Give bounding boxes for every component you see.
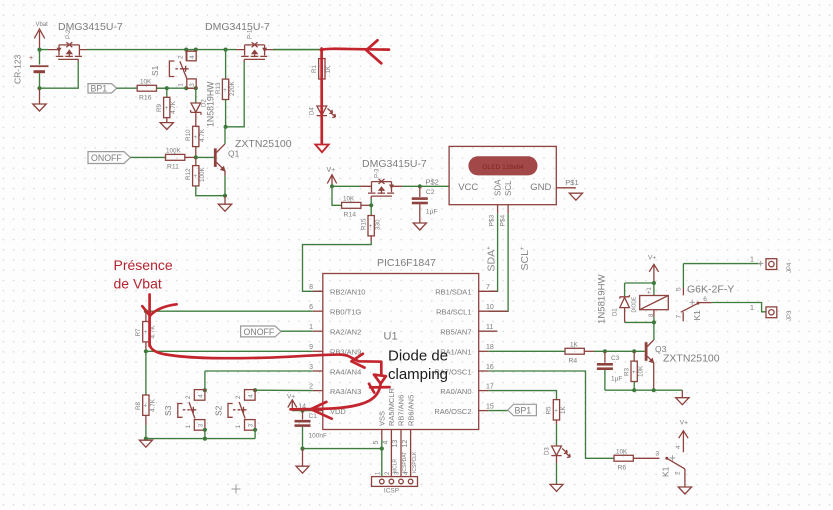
wire — [157, 87, 197, 89]
svg-text:17: 17 — [486, 383, 494, 390]
wire — [130, 156, 165, 158]
svg-text:ONOFF: ONOFF — [244, 327, 275, 337]
svg-text:K1: K1 — [661, 466, 671, 477]
svg-text:3: 3 — [248, 423, 255, 427]
svg-text:1K: 1K — [560, 405, 567, 414]
wire main rail — [40, 49, 321, 51]
switch S1 — [150, 50, 196, 89]
resistor R6 10K — [614, 449, 659, 472]
resistor R11 100K — [166, 148, 196, 171]
node junction R14/R15/gate — [369, 203, 373, 207]
wire — [226, 62, 245, 127]
svg-text:100K: 100K — [199, 166, 206, 182]
node rail junction — [144, 437, 148, 441]
svg-text:3: 3 — [309, 364, 313, 371]
svg-text:1N5819HW: 1N5819HW — [597, 273, 608, 324]
node V+ junction — [330, 184, 334, 188]
svg-text:MCLR: MCLR — [393, 458, 399, 473]
svg-text:D1: D1 — [613, 308, 619, 316]
svg-text:S1: S1 — [150, 65, 160, 76]
resistor R9 4.7K — [156, 88, 177, 122]
svg-text:1N5819HW: 1N5819HW — [206, 81, 216, 127]
pin 11 RB5/AN7 — [440, 324, 497, 337]
wire pin9 — [146, 350, 313, 352]
supply Vbat — [34, 22, 48, 50]
svg-text:RA0/AN0: RA0/AN0 — [440, 387, 471, 396]
svg-text:R3: R3 — [623, 367, 630, 376]
svg-text:+: + — [194, 135, 198, 141]
svg-text:P-1: P-1 — [248, 29, 254, 39]
svg-text:4.7K: 4.7K — [170, 100, 177, 114]
pin 14 VDD — [298, 403, 346, 416]
flag ONOFF — [88, 152, 130, 164]
transistor DMG3415U-7 (P-1) — [205, 21, 273, 62]
svg-text:C3: C3 — [611, 355, 620, 362]
resistor R1 1K — [311, 50, 332, 106]
wire base Q3 — [594, 350, 645, 352]
svg-text:1K: 1K — [325, 65, 332, 74]
node R3 junction — [632, 349, 636, 353]
wire pin3 — [205, 371, 313, 390]
wire to pin8 — [303, 241, 372, 291]
svg-text:10: 10 — [486, 304, 494, 311]
svg-text:5: 5 — [373, 441, 380, 445]
svg-text:1µF: 1µF — [426, 209, 438, 216]
svg-text:220K: 220K — [229, 80, 236, 96]
svg-text:Vbat: Vbat — [36, 22, 49, 28]
relay K1 coil G6K-2F-Y — [632, 284, 735, 318]
ground — [218, 196, 231, 212]
flag ONOFF — [241, 326, 281, 337]
flag BP1 — [88, 83, 117, 93]
svg-text:R13: R13 — [215, 82, 222, 94]
pin 9 RB3/AN9 — [309, 344, 361, 357]
wire SDA — [489, 214, 498, 291]
svg-text:13: 13 — [392, 440, 399, 448]
svg-text:1: 1 — [185, 425, 192, 429]
svg-text:RB6/AN5: RB6/AN5 — [406, 395, 415, 426]
svg-text:4.7K: 4.7K — [149, 398, 156, 412]
svg-text:clamping: clamping — [388, 366, 448, 383]
svg-text:RB4/SCL1: RB4/SCL1 — [436, 308, 471, 317]
annotation red arrow Presence — [148, 295, 151, 347]
wire — [40, 62, 79, 88]
node R7 tee — [144, 309, 148, 313]
node base junction — [194, 155, 198, 159]
svg-text:3: 3 — [197, 423, 204, 427]
svg-text:R11: R11 — [167, 164, 179, 171]
svg-text:BP1: BP1 — [91, 83, 108, 93]
svg-text:1: 1 — [178, 83, 185, 87]
svg-text:SDA: SDA — [493, 179, 502, 196]
svg-text:3: 3 — [656, 451, 660, 458]
wire bottom rail — [605, 389, 682, 391]
svg-text:V+: V+ — [287, 394, 295, 401]
svg-text:Diode de: Diode de — [388, 347, 448, 364]
svg-text:4.7K: 4.7K — [199, 128, 206, 142]
supply V+ at VDD — [287, 394, 297, 412]
svg-text:R8: R8 — [135, 401, 142, 410]
svg-text:BP1: BP1 — [515, 405, 532, 415]
svg-text:7: 7 — [486, 284, 490, 291]
grid cursor cross — [232, 485, 241, 494]
switch contact K1 (pins 3/4/2) — [656, 420, 692, 495]
pin 17 RA0/AN0 — [440, 383, 494, 396]
wire to ground rail — [145, 425, 147, 439]
op-amp U1 PIC16F1847 — [323, 257, 479, 430]
svg-text:4: 4 — [248, 394, 255, 398]
pin 12 RB6/AN5 — [402, 395, 418, 477]
transistor DMG3415U-7 (P-2) — [48, 21, 123, 62]
pin 1 RA2/AN2 — [309, 324, 361, 337]
annotation red current path top — [321, 49, 389, 50]
svg-text:PIC16F1847: PIC16F1847 — [377, 257, 436, 269]
pin 15 RA6/OSC2 — [434, 403, 494, 416]
svg-text:11: 11 — [486, 324, 493, 331]
resistor R15 330 — [360, 216, 381, 242]
node relay bottom junction — [652, 320, 656, 324]
pin 3 RA4/AN4 — [309, 364, 361, 377]
ground — [676, 390, 689, 405]
resistor R3 10K — [623, 351, 644, 390]
resistor R10 4.7K — [185, 126, 206, 157]
resistor R12 100K — [185, 157, 225, 195]
svg-text:ONOFF: ONOFF — [91, 153, 122, 163]
svg-text:P$1: P$1 — [565, 178, 578, 187]
wire rail to R1 — [273, 49, 321, 51]
svg-text:1: 1 — [750, 303, 754, 312]
svg-text:VSS: VSS — [378, 411, 387, 426]
svg-text:C2: C2 — [426, 189, 435, 196]
wire pin17 — [489, 391, 557, 400]
svg-text:1: 1 — [235, 425, 242, 429]
svg-text:+: + — [573, 346, 577, 352]
svg-text:+: + — [29, 55, 33, 62]
svg-text:ZXTN25100: ZXTN25100 — [235, 138, 292, 150]
ground — [139, 440, 152, 447]
switch S3 — [163, 388, 207, 441]
svg-text:2: 2 — [675, 471, 682, 475]
svg-text:15: 15 — [486, 403, 494, 410]
node VSS junction — [300, 447, 304, 451]
resistor R5 1K — [546, 400, 567, 424]
pad JP4 — [750, 255, 793, 274]
node rail junctions — [632, 388, 636, 392]
svg-text:R1: R1 — [311, 64, 318, 73]
svg-text:+: + — [369, 224, 373, 230]
diode D1 1N5819HW — [597, 273, 630, 324]
svg-text:U1: U1 — [384, 331, 398, 343]
svg-text:RA6/OSC2: RA6/OSC2 — [434, 407, 471, 416]
wire VDD — [292, 410, 313, 412]
node C2 junction — [418, 184, 422, 188]
wire gate — [370, 199, 372, 216]
svg-text:GND: GND — [530, 182, 551, 193]
svg-text:4: 4 — [383, 441, 390, 445]
svg-text:+: + — [622, 453, 626, 459]
node junctions y88 — [165, 86, 169, 90]
svg-text:4: 4 — [189, 55, 196, 59]
svg-text:JP3: JP3 — [787, 310, 793, 321]
wire pin2 — [255, 389, 313, 391]
svg-text:C1: C1 — [309, 413, 318, 420]
pin 6 RB0/T1G — [309, 304, 361, 317]
svg-text:D3: D3 — [545, 447, 551, 455]
svg-text:+1: +1 — [647, 286, 653, 294]
svg-text:RB5/AN7: RB5/AN7 — [440, 328, 471, 337]
svg-text:Q1: Q1 — [228, 149, 240, 159]
svg-text:DMG3415U-7: DMG3415U-7 — [362, 158, 427, 170]
ground — [160, 123, 173, 130]
switch S2 — [214, 388, 258, 439]
wire — [556, 424, 558, 446]
svg-text:12: 12 — [402, 440, 409, 448]
wire pin6 — [146, 310, 313, 312]
svg-text:RA2/AN2: RA2/AN2 — [330, 328, 361, 337]
pin 16 RA7/OSC1 — [434, 364, 494, 377]
pin 18 RA1/AN1 — [440, 344, 494, 357]
svg-text:R16: R16 — [139, 95, 152, 102]
battery CR-123 — [13, 54, 49, 84]
resistor R4 1K — [565, 342, 594, 365]
flag BP1 — [489, 404, 537, 415]
resistor R7 4.7K — [135, 311, 156, 351]
connector ICSP — [372, 471, 418, 495]
wire — [556, 463, 558, 484]
svg-text:DMG3415U-7: DMG3415U-7 — [205, 21, 270, 33]
pin 10 RB4/SCL1 — [436, 304, 508, 317]
svg-text:3: 3 — [189, 83, 196, 87]
resistor R14 10K — [342, 196, 372, 219]
annotation red diode sketch — [374, 375, 386, 384]
svg-text:+: + — [194, 174, 198, 180]
svg-text:R6: R6 — [618, 465, 627, 472]
wire pin5 to JP4 — [683, 264, 760, 288]
wire pin6 to JP3 — [712, 303, 766, 312]
svg-text:6: 6 — [309, 304, 313, 311]
svg-text:5: 5 — [676, 287, 683, 291]
svg-text:10K: 10K — [638, 365, 645, 377]
pin 7 RB1/SDA1 — [435, 284, 497, 297]
svg-text:4: 4 — [675, 445, 682, 449]
svg-text:R9: R9 — [156, 103, 163, 112]
svg-text:P-2: P-2 — [66, 29, 72, 39]
ground — [33, 88, 46, 111]
pin 8 RB2/AN10 — [309, 284, 365, 297]
svg-text:9: 9 — [309, 344, 313, 351]
ground (red annotated) — [315, 145, 328, 153]
svg-text:ICSP: ICSP — [384, 488, 399, 495]
module OLED 128x64 — [426, 146, 583, 226]
svg-text:ZXTN25100: ZXTN25100 — [663, 353, 720, 365]
svg-text:1: 1 — [750, 255, 754, 264]
pad JP3 — [750, 303, 793, 321]
ground — [296, 449, 309, 474]
svg-text:R7: R7 — [135, 328, 142, 337]
annotation red arrowhead left — [367, 40, 382, 63]
svg-text:R10: R10 — [185, 129, 192, 141]
wire — [117, 87, 137, 89]
svg-text:+: + — [223, 88, 227, 94]
diode D2 1N5819HW — [191, 81, 216, 127]
svg-text:JP4: JP4 — [787, 262, 793, 273]
svg-text:R14: R14 — [344, 212, 357, 219]
svg-text:OLED 128x64: OLED 128x64 — [482, 164, 524, 171]
annotation red VDD arrowhead — [311, 402, 332, 419]
svg-text:P$2: P$2 — [426, 178, 439, 187]
svg-text:RA3/AN3: RA3/AN3 — [330, 387, 361, 396]
svg-text:V+: V+ — [327, 167, 336, 174]
svg-text:+: + — [554, 409, 558, 415]
pin 5 VSS — [373, 411, 387, 445]
svg-text:+: + — [145, 83, 149, 89]
svg-text:2: 2 — [185, 395, 192, 399]
svg-text:330: 330 — [375, 219, 382, 230]
capacitor C2 1uF — [412, 186, 438, 223]
pin 2 RA3/AN3 — [309, 383, 361, 396]
svg-text:7: 7 — [675, 315, 682, 319]
node rail junctions — [184, 48, 188, 52]
svg-text:DIODE: DIODE — [632, 296, 638, 313]
wire pin18 — [489, 350, 565, 352]
svg-text:Présence: Présence — [114, 257, 173, 273]
capacitor C3 1uF — [597, 351, 622, 390]
svg-text:1µF: 1µF — [611, 376, 622, 383]
transistor DMG3415U-7 (P-3) — [360, 158, 427, 199]
supply V+ relay — [648, 255, 659, 284]
node relay top junction — [652, 281, 656, 285]
resistor R8 4.7K — [135, 351, 156, 425]
relay contact K1 (pins 5/6/7) — [675, 287, 711, 321]
wire — [332, 185, 449, 187]
wire — [39, 50, 41, 65]
pin 4 RA5/MCLR — [383, 387, 399, 476]
svg-text:R4: R4 — [569, 358, 578, 365]
svg-text:P$4: P$4 — [499, 215, 506, 227]
ground — [413, 223, 426, 230]
wire relay bottom — [625, 317, 654, 340]
annotation red vertical over R1/D4 — [320, 49, 323, 144]
node emitter junction — [223, 194, 227, 198]
svg-text:V+: V+ — [680, 420, 688, 427]
svg-text:RA4/AN4: RA4/AN4 — [330, 367, 361, 376]
svg-text:+: + — [349, 200, 353, 206]
svg-text:P$3: P$3 — [489, 215, 496, 227]
svg-text:+: + — [632, 370, 636, 376]
svg-text:SCL: SCL — [504, 180, 513, 196]
wire base — [196, 156, 214, 158]
svg-text:RB0/T1G: RB0/T1G — [330, 308, 361, 317]
svg-text:K1: K1 — [692, 310, 702, 321]
resistor R16 10K — [137, 79, 167, 102]
svg-text:ICSPCLK: ICSPCLK — [412, 451, 418, 473]
LED D4 — [310, 106, 336, 144]
svg-text:ICSPDAT: ICSPDAT — [402, 452, 408, 473]
svg-text:R5: R5 — [546, 406, 553, 415]
svg-text:S2: S2 — [214, 405, 224, 416]
annotation red arc to VDD arrow — [313, 384, 381, 409]
ground — [550, 484, 563, 491]
wire — [625, 283, 654, 296]
svg-text:8: 8 — [309, 284, 313, 291]
resistor R13 220K — [215, 50, 236, 127]
svg-text:2: 2 — [309, 383, 313, 390]
svg-text:1: 1 — [309, 324, 313, 331]
node C3 junction — [603, 349, 607, 353]
svg-text:de Vbat: de Vbat — [114, 276, 162, 292]
wire pin1 — [281, 330, 313, 332]
svg-text:RB1/SDA1: RB1/SDA1 — [435, 288, 471, 297]
node junction R7/R8/pin9 — [144, 349, 148, 353]
annotation red sweep to diode — [150, 344, 382, 375]
svg-text:+: + — [144, 404, 148, 410]
svg-text:2: 2 — [235, 395, 242, 399]
wire — [332, 186, 342, 205]
node battery-minus junction — [37, 86, 41, 90]
wire — [39, 73, 41, 88]
wire pin16 — [489, 371, 614, 458]
node junction R13/gate/Q1 — [224, 125, 228, 129]
svg-text:+: + — [173, 152, 177, 158]
svg-text:RB7/AN6: RB7/AN6 — [397, 395, 406, 426]
transistor Q1 ZXTN25100 — [214, 127, 292, 196]
svg-text:2: 2 — [178, 55, 185, 59]
pin 13 RB7/AN6 — [392, 395, 408, 477]
svg-text:VCC: VCC — [458, 182, 478, 193]
node VBAT junction — [37, 48, 41, 52]
LED D3 — [545, 446, 571, 463]
svg-text:16: 16 — [486, 364, 494, 371]
svg-text:RB2/AN10: RB2/AN10 — [330, 288, 365, 297]
wire VSS — [303, 440, 382, 477]
svg-text:CR-123: CR-123 — [13, 54, 23, 84]
capacitor C1 100nF — [295, 411, 327, 449]
supply V+ — [327, 167, 337, 186]
svg-text:R15: R15 — [360, 218, 367, 230]
svg-text:+: + — [144, 330, 148, 336]
svg-text:RA5/MCLR: RA5/MCLR — [387, 387, 396, 426]
wire SCL — [489, 214, 508, 311]
svg-text:+: + — [165, 106, 169, 112]
transistor Q3 ZXTN25100 — [645, 340, 720, 390]
svg-text:S3: S3 — [163, 405, 173, 416]
svg-text:18: 18 — [486, 344, 494, 351]
svg-text:D4: D4 — [310, 107, 316, 115]
svg-text:R12: R12 — [185, 168, 192, 180]
svg-text:V+: V+ — [648, 255, 656, 262]
svg-text:100nF: 100nF — [309, 433, 327, 440]
wire switch rail — [146, 438, 255, 440]
annotation red mid arrowhead — [352, 354, 365, 368]
svg-text:4: 4 — [197, 394, 204, 398]
svg-text:G6K-2F-Y: G6K-2F-Y — [687, 284, 734, 296]
node VDD junction — [300, 409, 304, 413]
svg-text:P-3: P-3 — [375, 168, 381, 178]
